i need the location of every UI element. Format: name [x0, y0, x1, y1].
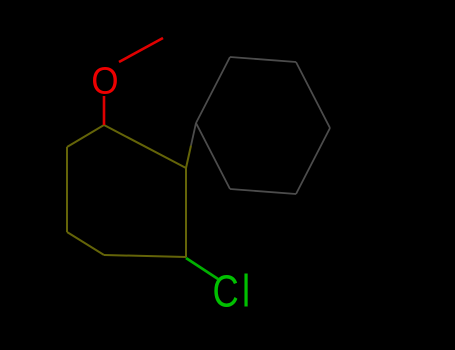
bond C2-C3 (ring left edge, olive) [66, 147, 68, 232]
bond phenyl Cm1-Cp (gray) [296, 62, 330, 128]
bond C6-Cipso lower half (olive) [186, 146, 191, 169]
bond phenyl Cp-Cm2 (gray) [296, 128, 330, 194]
bond C1-C2 (ring edge, olive) [67, 125, 104, 147]
bond O-CH3 (red) [119, 38, 163, 62]
svg-text:Cl: Cl [213, 265, 254, 316]
bond phenyl Co2-Cipso (gray) [196, 123, 230, 189]
bond C5-C6 (ring right edge, olive) [185, 168, 187, 257]
bond phenyl Co1-Cm1 top edge (gray) [230, 57, 296, 62]
bond phenyl Cm2-Co2 bottom edge (gray) [230, 189, 296, 194]
svg-text:O: O [91, 59, 118, 102]
bond C4-C5 (ring bottom edge, olive) [104, 255, 186, 257]
bond O-C1 (red) [103, 96, 106, 125]
bond phenyl Cipso-Co1 (gray) [196, 57, 230, 123]
bond C5-Cl (green) [186, 258, 218, 279]
bond C3-C4 (ring edge, olive) [67, 232, 104, 255]
bond C6-Cipso upper half (gray) [191, 123, 196, 146]
bond C6-C1 (ring edge, olive) [104, 125, 186, 168]
